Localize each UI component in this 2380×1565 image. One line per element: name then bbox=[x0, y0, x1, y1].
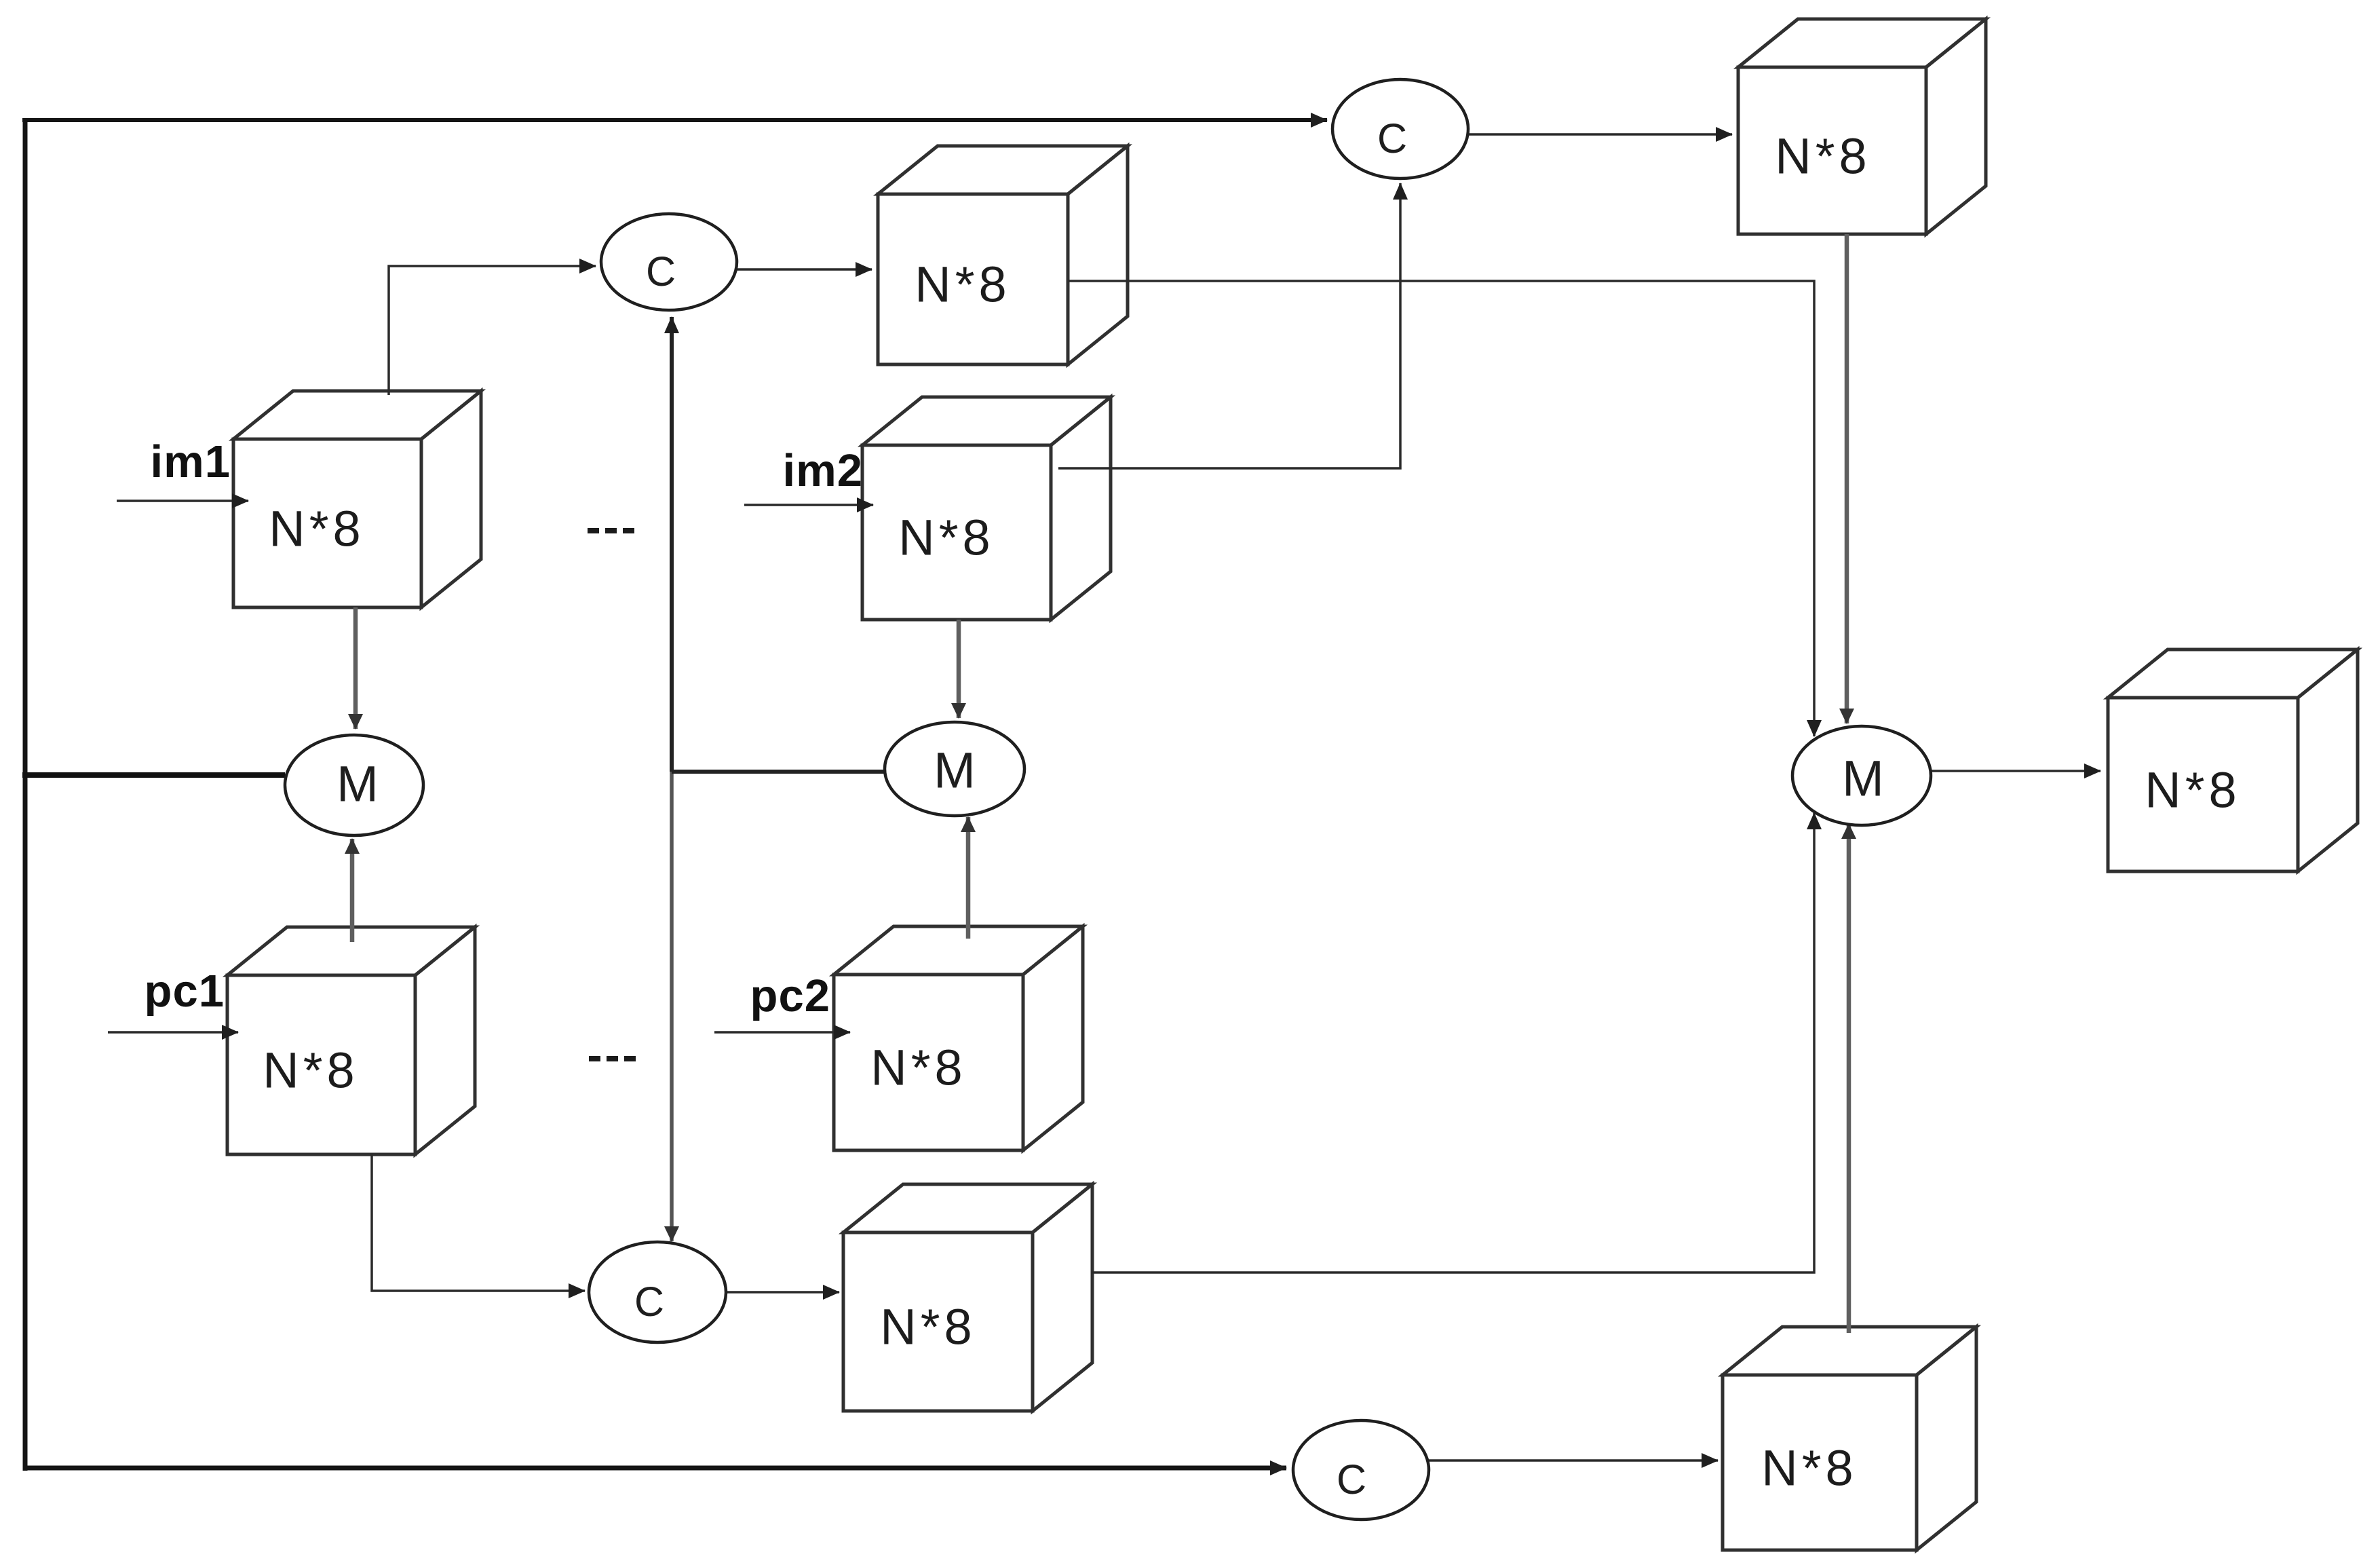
svg-text:N*8: N*8 bbox=[263, 1042, 358, 1099]
svg-text:N*8: N*8 bbox=[1761, 1440, 1857, 1496]
svg-text:C: C bbox=[1337, 1456, 1366, 1503]
svg-text:pc1: pc1 bbox=[145, 966, 225, 1017]
svg-text:N*8: N*8 bbox=[2145, 762, 2240, 818]
svg-text:C: C bbox=[634, 1279, 664, 1325]
svg-text:N*8: N*8 bbox=[1775, 128, 1870, 185]
svg-text:im2: im2 bbox=[783, 445, 863, 496]
svg-text:M: M bbox=[934, 742, 976, 799]
svg-text:M: M bbox=[337, 756, 379, 812]
svg-text:im1: im1 bbox=[151, 436, 231, 487]
svg-text:pc2: pc2 bbox=[750, 970, 830, 1021]
svg-text:N*8: N*8 bbox=[269, 501, 364, 557]
svg-text:N*8: N*8 bbox=[870, 1040, 966, 1096]
svg-text:C: C bbox=[646, 248, 676, 295]
svg-text:N*8: N*8 bbox=[880, 1299, 976, 1355]
svg-text:N*8: N*8 bbox=[898, 510, 994, 566]
svg-text:C: C bbox=[1377, 115, 1407, 162]
svg-text:M: M bbox=[1842, 751, 1884, 807]
svg-text:N*8: N*8 bbox=[915, 257, 1010, 313]
